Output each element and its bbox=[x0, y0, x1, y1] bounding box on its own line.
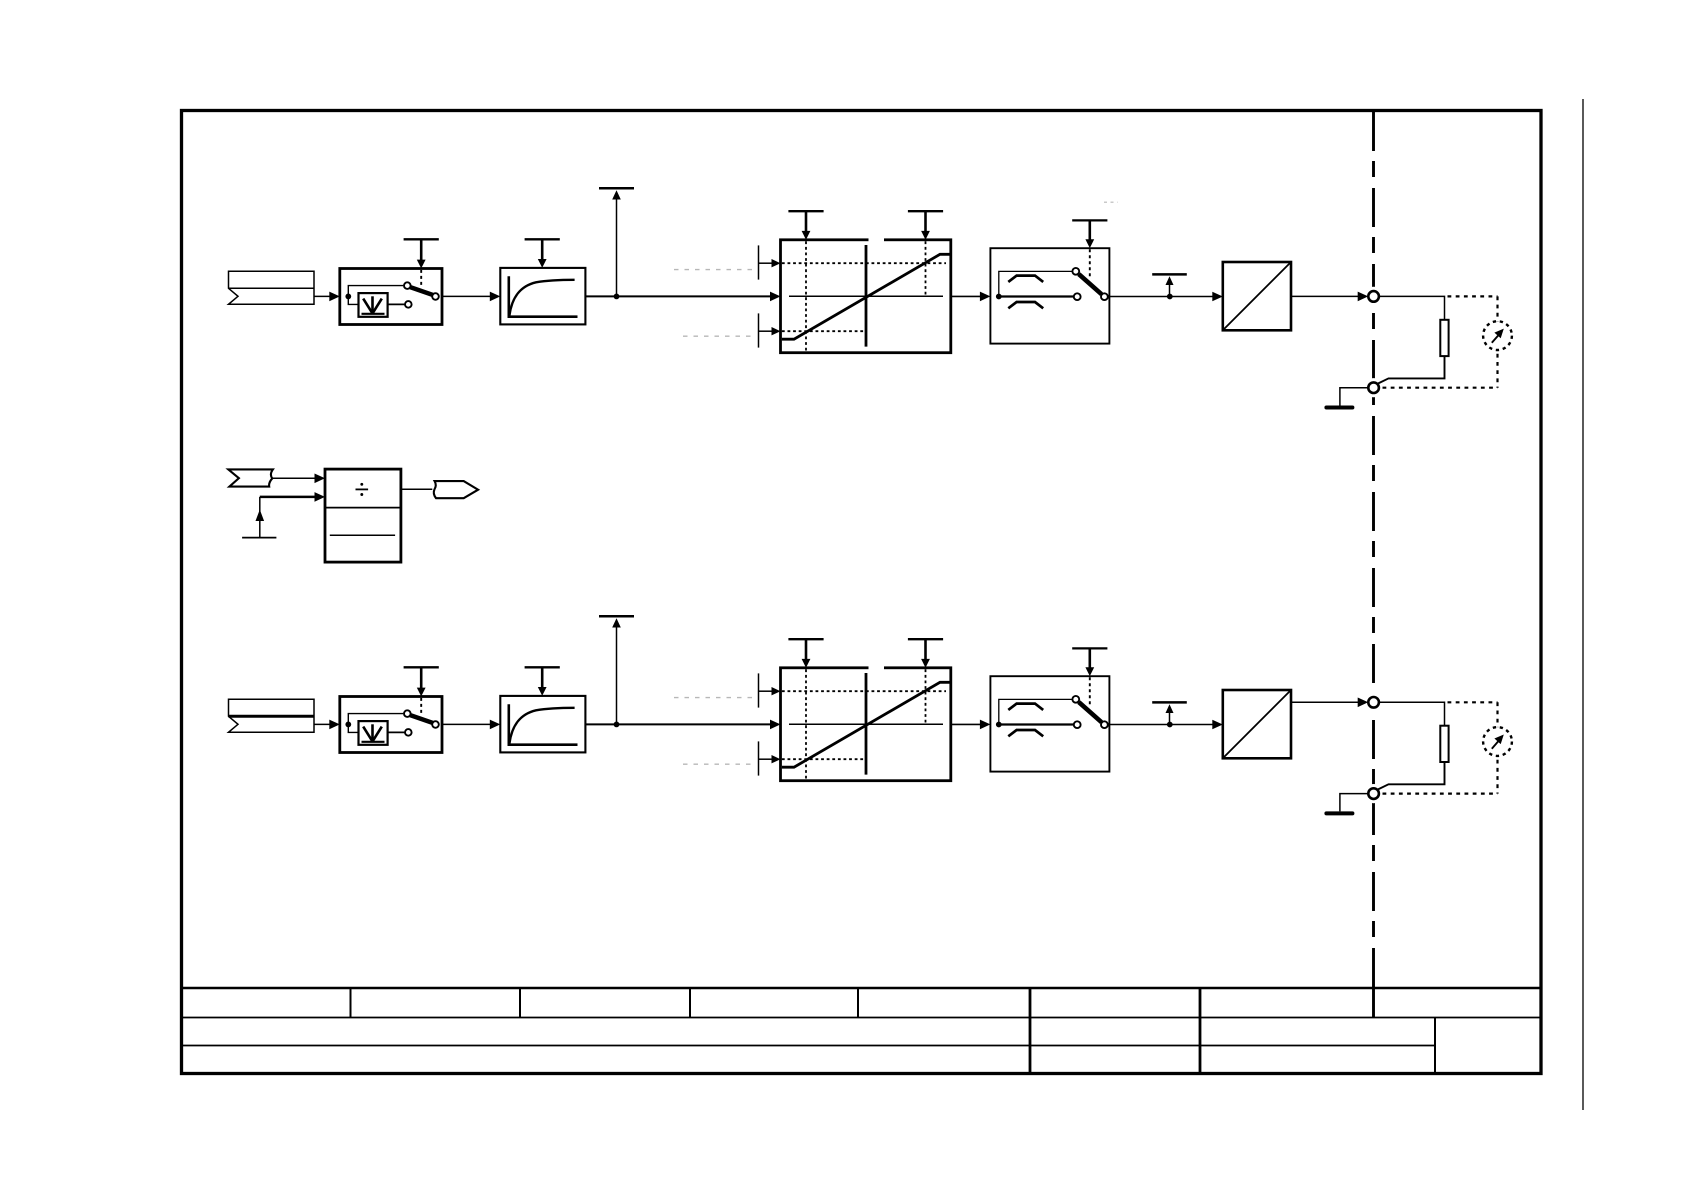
switch control dashed line bbox=[420, 698, 422, 714]
scaling dashed x1 bbox=[805, 241, 807, 352]
title block divider c bbox=[689, 988, 691, 1018]
scaling vertical axis bbox=[865, 245, 868, 347]
selector blade bbox=[1079, 702, 1102, 722]
smoothing hat symbol lower bbox=[1008, 730, 1043, 736]
smoothing hat symbol upper bbox=[1008, 704, 1043, 710]
smoothed branch wire bbox=[999, 271, 1073, 296]
wire flag to limiter box bbox=[314, 295, 331, 297]
scaling dashed y1 bbox=[782, 690, 946, 692]
title block divider a bbox=[350, 988, 352, 1018]
switch contact limited bbox=[405, 729, 412, 736]
wire terminal loop top bbox=[1379, 702, 1445, 725]
scaling characteristic block bbox=[781, 240, 951, 353]
output junction node bbox=[1167, 294, 1173, 300]
wire D/A to terminal bbox=[1291, 701, 1360, 703]
selector input node bbox=[996, 722, 1002, 728]
limiter symbol box bbox=[359, 293, 388, 317]
selector contact direct bbox=[1074, 721, 1081, 728]
faint dashed remnant upper bbox=[674, 269, 754, 271]
burden resistor bbox=[1440, 726, 1448, 762]
title block divider e bbox=[1029, 988, 1032, 1074]
readout bar bbox=[599, 615, 634, 618]
switch contact bypass bbox=[404, 710, 411, 717]
upper limit input tick bbox=[758, 245, 760, 279]
selector blade bbox=[1079, 274, 1102, 294]
dotted measuring loop right bbox=[1496, 702, 1498, 793]
divider block separator bbox=[325, 507, 401, 509]
wire selector to D/A bbox=[1109, 724, 1214, 726]
parameter scaling x1y1 bbox=[788, 211, 823, 240]
title block divider b bbox=[519, 988, 521, 1018]
meter needle bbox=[1492, 335, 1499, 343]
wire scaling to output stage bbox=[951, 295, 982, 297]
dotted measuring loop bottom bbox=[1383, 792, 1498, 794]
title block divider f bbox=[1199, 988, 1202, 1074]
limiter/switch block bbox=[340, 269, 442, 325]
wire resistor to terminal2 bbox=[1378, 762, 1445, 790]
switch blade bbox=[410, 715, 432, 723]
current meter bbox=[1483, 321, 1512, 350]
scaling characteristic block bbox=[781, 668, 951, 781]
title block divider g bbox=[1372, 988, 1375, 1018]
lower limit input wire bbox=[759, 330, 774, 332]
title block row line 1 bbox=[182, 1017, 1541, 1019]
scaling dashed y2 bbox=[782, 330, 866, 332]
wire flag to divider bbox=[273, 477, 317, 479]
smoothing filter block PT1 bbox=[500, 696, 585, 753]
customer interface dashed line bbox=[1372, 112, 1375, 988]
terminal 2 bbox=[1368, 788, 1379, 799]
label gap patch bbox=[869, 665, 885, 673]
scaling characteristic curve bbox=[782, 682, 951, 767]
input node junction bbox=[345, 722, 351, 728]
wire limiter branch bbox=[348, 296, 358, 304]
dotted measuring loop right bbox=[1496, 296, 1498, 387]
parameter smoothing time bbox=[525, 667, 560, 696]
readout bar bbox=[599, 187, 634, 190]
selector control dashed line bbox=[1089, 677, 1091, 706]
wire divider to output flag bbox=[401, 488, 432, 490]
smoothing filter block PT1 bbox=[500, 268, 585, 325]
output smoothing/selector block bbox=[990, 248, 1109, 343]
scaling characteristic curve bbox=[782, 254, 951, 339]
wire switch to smoothing filter bbox=[442, 723, 491, 725]
wire limiter output bbox=[388, 303, 405, 305]
upper limit input tick bbox=[758, 673, 760, 707]
input node junction bbox=[345, 294, 351, 300]
dotted measuring loop top bbox=[1448, 295, 1498, 297]
PT1 axes bbox=[509, 704, 578, 745]
smoothing hat symbol lower bbox=[1008, 302, 1043, 308]
parameter scaling x2y2 bbox=[908, 639, 943, 668]
parameter source select bbox=[404, 239, 439, 268]
parameter selector control bbox=[1072, 220, 1107, 248]
wire bypass branch bbox=[348, 286, 403, 297]
PT1 exponential curve bbox=[509, 708, 574, 744]
title block divider d bbox=[857, 988, 859, 1018]
title block row line 2 bbox=[182, 1045, 1435, 1047]
burden resistor bbox=[1440, 320, 1448, 356]
lower limit input wire bbox=[759, 758, 774, 760]
terminal halo masks bbox=[1364, 287, 1383, 398]
smoothing hat symbol upper bbox=[1008, 276, 1043, 282]
divider input2 wire bbox=[260, 496, 317, 499]
signal source connector flag bbox=[229, 699, 315, 732]
divider output flag bbox=[434, 481, 478, 498]
terminal 1 bbox=[1368, 697, 1379, 708]
upper limit input wire bbox=[759, 262, 774, 264]
dotted measuring loop top bbox=[1448, 701, 1498, 703]
limiter/switch block bbox=[340, 697, 442, 753]
limiter symbol bbox=[362, 296, 385, 314]
selector contact smoothed bbox=[1072, 268, 1079, 275]
lower limit input tick bbox=[758, 313, 760, 347]
parameter scaling x2y2 bbox=[908, 211, 943, 240]
switch control dashed line bbox=[420, 270, 422, 286]
readout r-parameter bar bbox=[1152, 702, 1187, 724]
divider source flag bbox=[228, 469, 273, 486]
switch contact bypass bbox=[404, 282, 411, 289]
parameter scaling x1y1 bbox=[788, 639, 823, 668]
selector contact direct bbox=[1074, 293, 1081, 300]
readout branch line bbox=[616, 627, 618, 724]
scaling dashed y2 bbox=[782, 758, 866, 760]
wire filter to scaling block bbox=[585, 723, 771, 725]
selector contact output bbox=[1101, 293, 1108, 300]
scaling dashed y1 bbox=[782, 262, 946, 264]
switch contact output bbox=[432, 721, 439, 728]
wire terminal2 to ground bbox=[1340, 388, 1368, 406]
meter needle bbox=[1492, 741, 1499, 749]
direct branch wire bbox=[999, 723, 1074, 725]
faint dotted remnant bbox=[1104, 201, 1118, 203]
divider input2 riser bbox=[259, 497, 261, 538]
wire switch to smoothing filter bbox=[442, 295, 491, 297]
wire bypass branch bbox=[348, 714, 403, 725]
wire filter to scaling block bbox=[585, 295, 771, 297]
faint dashed remnant lower bbox=[683, 335, 754, 337]
divider block fraction line bbox=[330, 534, 395, 536]
title block top line bbox=[182, 987, 1541, 990]
wire terminal2 to ground bbox=[1340, 794, 1368, 812]
upper limit input wire bbox=[759, 690, 774, 692]
ground symbol bbox=[1326, 811, 1352, 815]
output smoothing/selector block bbox=[990, 676, 1109, 771]
readout r-parameter bar bbox=[1152, 274, 1187, 296]
flag middle line bbox=[229, 287, 315, 289]
parameter smoothing time bbox=[525, 239, 560, 267]
wire selector to D/A bbox=[1109, 296, 1214, 298]
smoothed branch wire bbox=[999, 699, 1073, 724]
scaling dashed x2 bbox=[925, 669, 927, 724]
wire scaling to output stage bbox=[951, 723, 982, 725]
dotted measuring loop bottom bbox=[1383, 387, 1498, 389]
faint dashed remnant lower bbox=[683, 763, 754, 765]
scaling dashed x2 bbox=[925, 241, 927, 296]
terminal 1 bbox=[1368, 291, 1379, 302]
scaling dashed x1 bbox=[805, 669, 807, 780]
selector contact output bbox=[1101, 721, 1108, 728]
lower limit input tick bbox=[758, 741, 760, 775]
D/A converter block bbox=[1223, 690, 1291, 758]
selector contact smoothed bbox=[1072, 696, 1079, 703]
scaling vertical axis bbox=[865, 673, 868, 775]
wire limiter branch bbox=[348, 724, 358, 732]
divider parameter bar bbox=[242, 537, 276, 539]
wire terminal loop top bbox=[1379, 296, 1445, 319]
selector input node bbox=[996, 294, 1002, 300]
PT1 axes bbox=[509, 276, 578, 317]
terminal halo masks bbox=[1364, 693, 1383, 804]
ground symbol bbox=[1326, 406, 1352, 410]
direct branch wire bbox=[999, 295, 1074, 297]
division sign bbox=[356, 483, 369, 496]
switch blade bbox=[410, 287, 432, 295]
switch contact output bbox=[432, 293, 439, 300]
D/A diagonal bbox=[1223, 262, 1291, 330]
D/A diagonal bbox=[1223, 690, 1291, 758]
PT1 exponential curve bbox=[509, 280, 574, 316]
terminal 2 bbox=[1368, 382, 1379, 393]
wire resistor to terminal2 bbox=[1378, 356, 1445, 384]
drawing frame border bbox=[182, 111, 1542, 1074]
switch contact limited bbox=[405, 301, 412, 308]
limiter symbol bbox=[362, 724, 385, 742]
parameter source select bbox=[404, 667, 439, 696]
current meter bbox=[1483, 727, 1512, 756]
limiter symbol box bbox=[359, 721, 388, 745]
page edge line right bbox=[1582, 99, 1584, 1110]
D/A converter block bbox=[1223, 262, 1291, 330]
readout branch line bbox=[616, 199, 618, 296]
junction node bbox=[614, 722, 620, 728]
wire D/A to terminal bbox=[1291, 295, 1360, 297]
selector control dashed line bbox=[1089, 249, 1091, 278]
label gap patch bbox=[869, 237, 885, 245]
scaling horizontal axis bbox=[789, 723, 943, 725]
signal source connector flag bbox=[229, 271, 315, 304]
parameter selector control bbox=[1072, 648, 1107, 676]
title block divider h bbox=[1434, 1018, 1436, 1074]
wire limiter output bbox=[388, 731, 405, 733]
wire flag to limiter box bbox=[314, 723, 331, 725]
faint dashed remnant upper bbox=[674, 697, 754, 699]
flag middle line bbox=[229, 715, 315, 718]
junction node bbox=[614, 294, 620, 300]
divider block bbox=[325, 469, 401, 562]
scaling horizontal axis bbox=[789, 295, 943, 297]
output junction node bbox=[1167, 722, 1173, 728]
